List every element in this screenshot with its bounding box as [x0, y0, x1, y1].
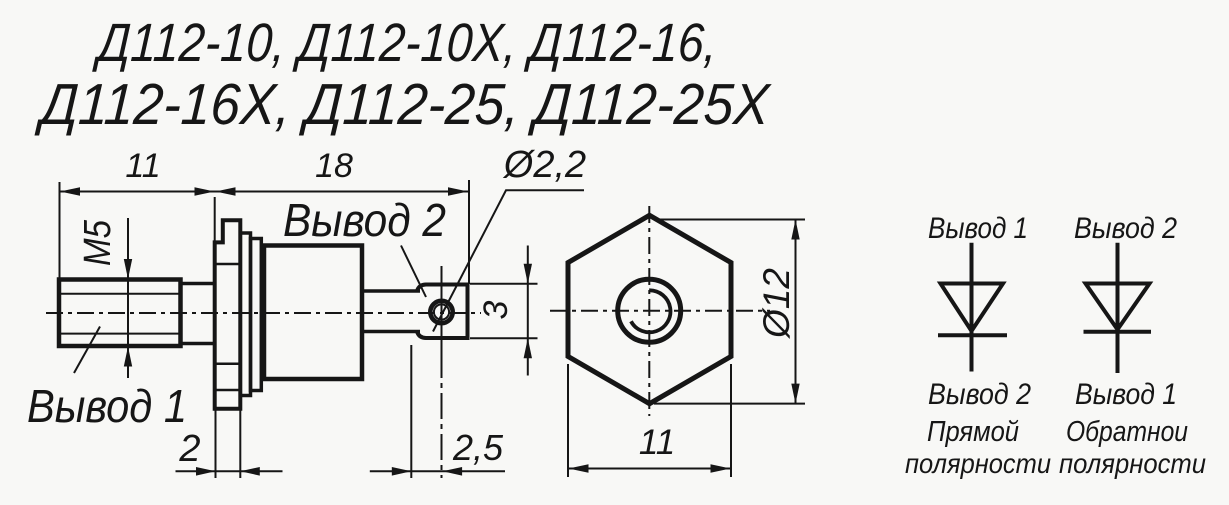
thread minor line bottom — [61, 333, 179, 335]
dim 18 extension line left — [214, 197, 216, 246]
M5 arrow down — [124, 259, 132, 279]
leader Вывод 2 — [401, 246, 426, 298]
svg-text:М5: М5 — [77, 219, 119, 266]
svg-text:3: 3 — [477, 300, 515, 319]
dim 3 arrow down — [524, 264, 532, 284]
dim 2,5 arrow 2 — [443, 467, 463, 476]
svg-text:2: 2 — [178, 428, 200, 470]
dim 3 ext top — [470, 283, 538, 285]
body cylinder — [264, 246, 362, 380]
diode D1 cathode bar — [938, 333, 1007, 337]
diode D2 triangle — [1086, 284, 1150, 330]
dim 2 line — [176, 470, 283, 472]
dim 11 hex arrow left — [569, 464, 589, 473]
svg-text:Вывод 2: Вывод 2 — [283, 194, 446, 246]
dim Ø12 line — [795, 220, 797, 404]
dim 3 ext bottom — [470, 337, 538, 339]
dim 2 arrow 2 — [240, 467, 259, 476]
lead stem top — [362, 289, 420, 293]
dim 18 extension line right — [468, 180, 470, 284]
svg-text:полярности: полярности — [905, 448, 1051, 479]
terminal tab — [417, 285, 468, 339]
dim 2 arrow — [196, 467, 216, 476]
svg-text:полярности: полярности — [1059, 448, 1206, 479]
dim Ø12 arrow up — [791, 220, 799, 240]
svg-text:Вывод 2: Вывод 2 — [928, 378, 1031, 411]
hex thread arc — [631, 290, 670, 332]
hex facet line upper — [215, 263, 241, 266]
diode D1 anode line — [970, 243, 974, 372]
washer ring 2 — [251, 239, 262, 391]
dim 3 arrow up — [524, 338, 532, 358]
hex vertical centerline — [648, 206, 650, 416]
dim 2,5 line — [370, 470, 505, 472]
lead stem bottom — [362, 330, 420, 334]
svg-text:Вывод 1: Вывод 1 — [928, 212, 1028, 245]
diode D1 triangle — [941, 284, 1004, 332]
svg-text:Ø2,2: Ø2,2 — [502, 144, 586, 186]
dim 11 extension line left — [59, 182, 61, 278]
dim 11 line — [60, 191, 216, 193]
hex facet line bottom — [215, 389, 241, 392]
dim 18 line — [215, 191, 469, 193]
dim 2 ext left — [215, 409, 217, 478]
leader Вывод 1 — [74, 327, 100, 374]
hex front view outline — [568, 215, 731, 403]
svg-text:Прямой: Прямой — [927, 416, 1019, 448]
svg-text:2,5: 2,5 — [452, 427, 504, 468]
dim 11 hex arrow right — [711, 464, 731, 473]
dim 11 hex line — [568, 468, 731, 470]
dim 11 arrow right — [195, 187, 215, 196]
svg-text:Ø12: Ø12 — [756, 268, 797, 340]
svg-text:18: 18 — [315, 147, 353, 185]
dim 2,5 ext left — [410, 345, 412, 478]
tab hole outer — [430, 301, 452, 323]
svg-text:Вывод 1: Вывод 1 — [1075, 378, 1177, 411]
diode D2 cathode bar — [1084, 330, 1152, 334]
hex facet line lower — [215, 363, 241, 366]
M5 arrow up — [124, 347, 132, 367]
svg-text:Обратнои: Обратнои — [1066, 416, 1188, 448]
dim 18 arrow left — [216, 187, 236, 196]
dim Ø12 ext bottom — [654, 403, 805, 405]
tab hole inner — [434, 304, 449, 319]
svg-text:11: 11 — [125, 147, 160, 185]
hole vertical centerline — [441, 266, 443, 352]
dim 2,5 arrow — [392, 467, 412, 476]
neck top — [181, 282, 216, 286]
diode D2 anode line — [1116, 243, 1120, 373]
dim 11 arrow left — [60, 187, 80, 196]
svg-text:Д112-10, Д112-10Х, Д112-16,: Д112-10, Д112-10Х, Д112-16, — [92, 13, 718, 73]
thread minor line top — [61, 293, 179, 295]
neck bottom — [181, 342, 216, 346]
svg-text:Вывод 2: Вывод 2 — [1074, 212, 1177, 245]
svg-text:11: 11 — [639, 423, 675, 462]
main axis centerline — [46, 312, 481, 314]
dim Ø12 arrow down — [791, 384, 799, 404]
dim 11 hex ext right — [730, 364, 732, 477]
hex hole outer circle — [618, 279, 681, 342]
Ø2,2 leader — [433, 190, 584, 331]
svg-text:Д112-16Х, Д112-25, Д112-25Х: Д112-16Х, Д112-25, Д112-25Х — [34, 72, 773, 137]
svg-text:Вывод 1: Вывод 1 — [27, 380, 187, 432]
dim 11 hex ext left — [567, 364, 569, 477]
washer ring 1 — [240, 233, 250, 396]
hex horizontal centerline — [550, 310, 770, 312]
dim 3 line — [527, 246, 529, 376]
dim Ø12 ext top — [654, 219, 805, 221]
stud body (threaded) — [59, 280, 181, 347]
dim 18 arrow right — [448, 187, 468, 196]
M5 dimension line — [127, 218, 129, 378]
dim 2 ext right — [239, 409, 241, 478]
hex flange side view — [215, 220, 241, 408]
